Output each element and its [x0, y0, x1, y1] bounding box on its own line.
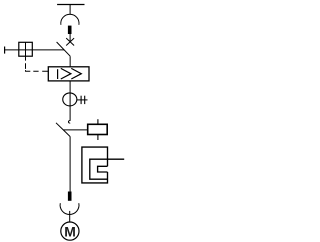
svg-text:M: M: [64, 223, 76, 239]
